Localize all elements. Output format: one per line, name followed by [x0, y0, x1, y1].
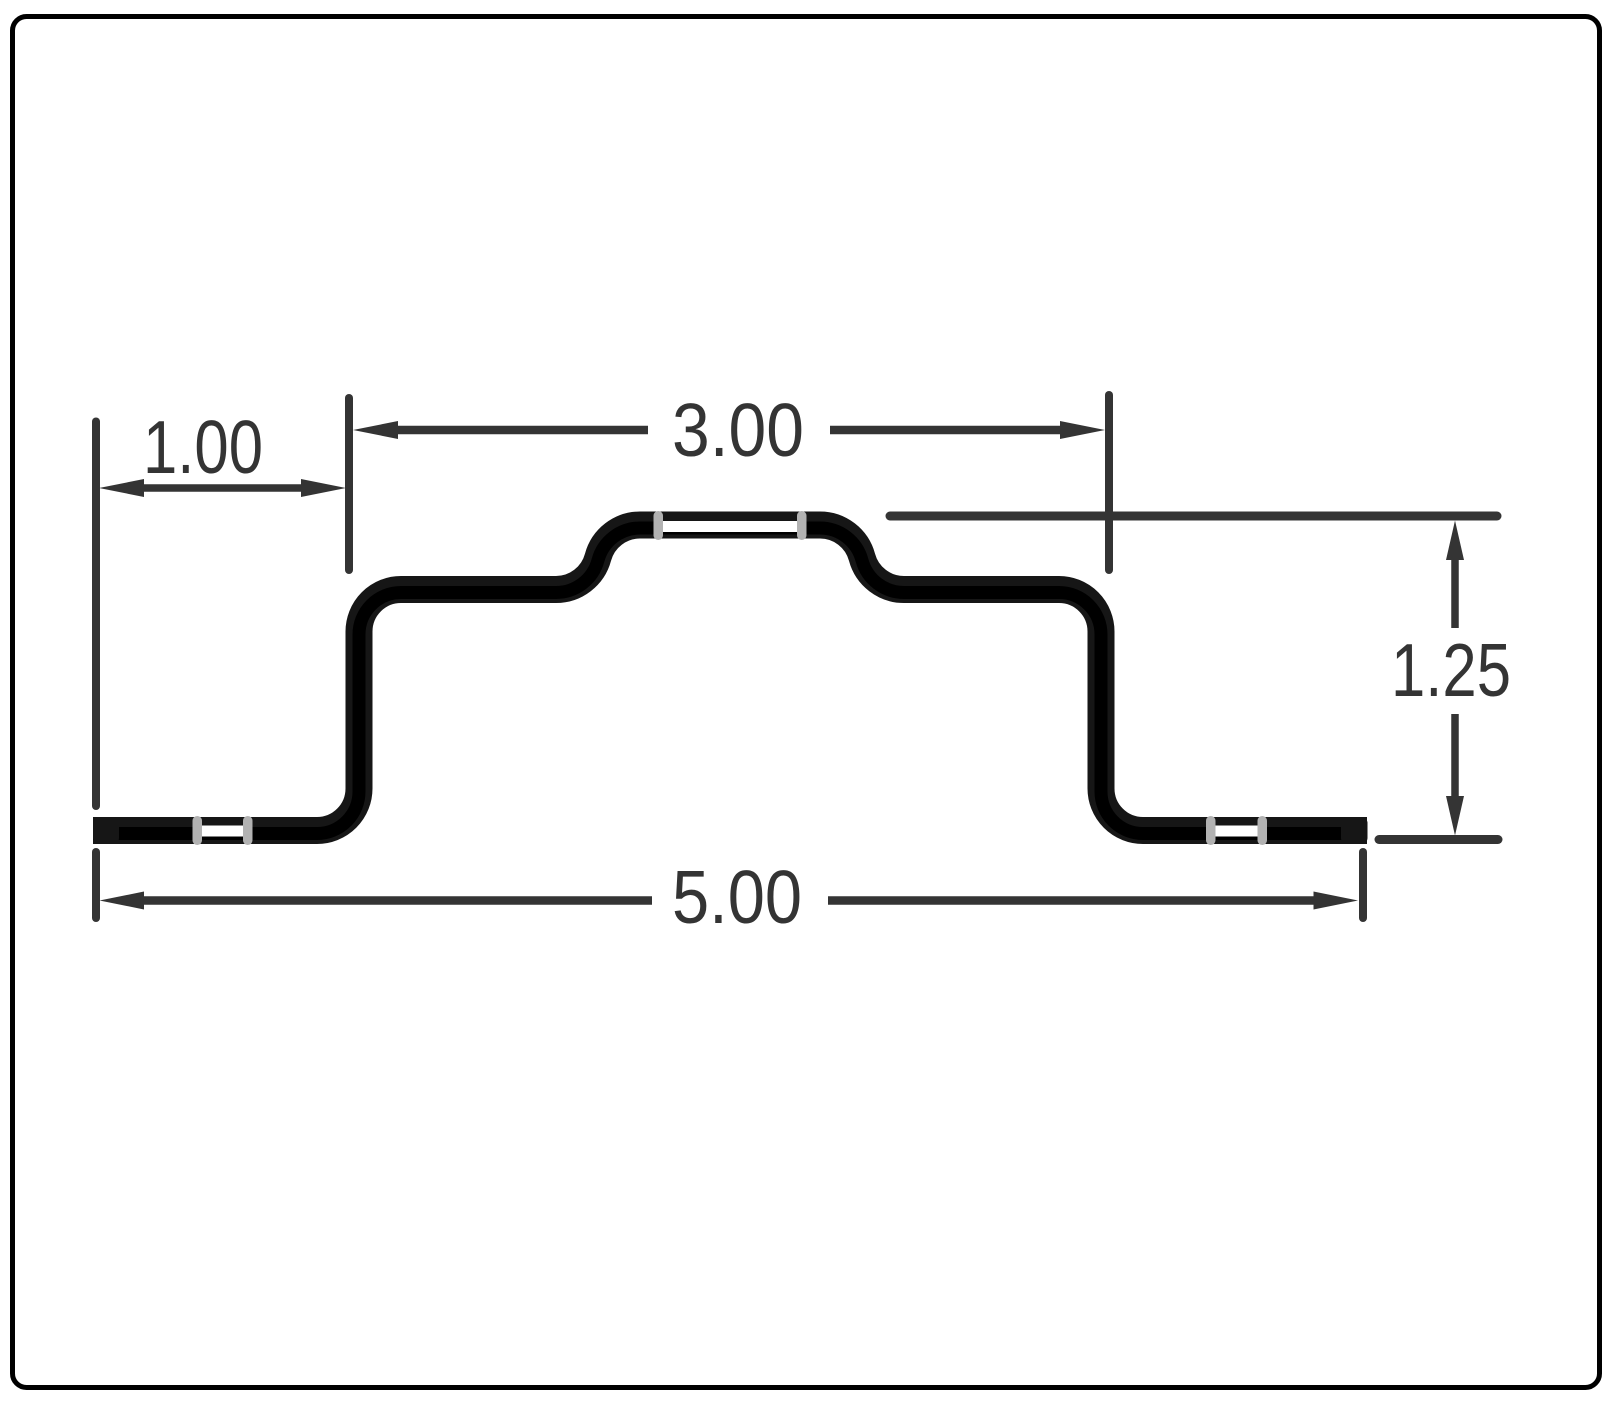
dimension 3.00 left arrowhead [353, 421, 398, 439]
extension line left vertical upper segment [92, 422, 100, 807]
svg-text:1.25: 1.25 [1391, 628, 1511, 712]
dimension 5.00 right line segment [828, 896, 1317, 905]
break mark on left flange [201, 826, 244, 837]
svg-text:5.00: 5.00 [672, 855, 802, 939]
right flange rounded end cap [1341, 817, 1368, 844]
dimension 1.25 lower shaft [1451, 714, 1459, 800]
extension line right vertical lower segment [1359, 852, 1367, 918]
dimension 5.00 left line segment [140, 896, 652, 905]
extension line at right leg [1105, 395, 1113, 570]
break mark on top plateau [662, 521, 798, 532]
dimension 1.25 down arrowhead [1446, 796, 1464, 836]
dimension 1.25 upper shaft [1451, 554, 1459, 628]
dimension 3.00 right line segment [830, 426, 1064, 435]
svg-text:3.00: 3.00 [672, 388, 804, 472]
extension line at left leg [345, 398, 353, 570]
dimension 1.00 left arrowhead [99, 479, 144, 497]
dimension 3.00 right arrowhead [1060, 421, 1105, 439]
extension line top horizontal [890, 512, 1497, 521]
dimension 1.00 right arrowhead [301, 479, 346, 497]
hat channel profile inner core line [93, 528, 1367, 834]
dimension 5.00 left arrowhead [100, 892, 145, 910]
dimension 1.00 line [138, 484, 307, 492]
dimension 5.00 right arrowhead [1314, 892, 1359, 910]
extension line bottom horizontal [1379, 835, 1498, 844]
extension line left vertical lower segment [92, 852, 100, 918]
break mark on right flange [1215, 826, 1258, 837]
left flange rounded end cap [93, 817, 119, 844]
dimension 1.25 up arrowhead [1446, 521, 1464, 561]
dimension 3.00 left line segment [394, 426, 648, 435]
hat channel profile sheet body [93, 525, 1367, 831]
svg-text:1.00: 1.00 [143, 405, 263, 489]
